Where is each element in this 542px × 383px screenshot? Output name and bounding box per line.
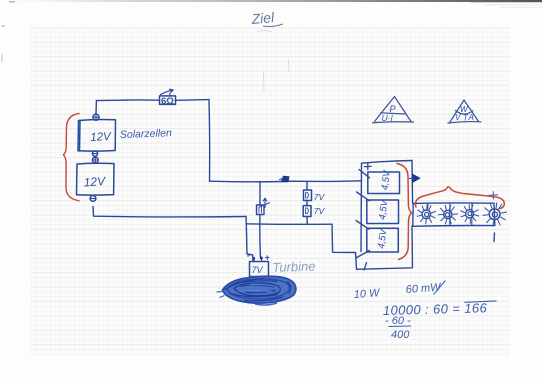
svg-text:- 60 -: - 60 - [385, 315, 411, 327]
svg-text:400: 400 [391, 329, 410, 341]
svg-text:A: A [468, 113, 474, 122]
svg-text:60 mW: 60 mW [405, 281, 442, 296]
svg-text:Turbine: Turbine [272, 258, 316, 274]
svg-text:10 W: 10 W [353, 287, 381, 301]
svg-text:Solarzellen: Solarzellen [120, 127, 172, 141]
svg-text:7V: 7V [252, 265, 264, 275]
svg-text:6Ω: 6Ω [161, 96, 174, 107]
svg-text:12V: 12V [90, 131, 112, 144]
svg-text:7V: 7V [314, 206, 326, 216]
svg-text:12V: 12V [83, 174, 106, 190]
svg-text:Ziel: Ziel [250, 9, 276, 27]
svg-text:V: V [455, 113, 461, 122]
svg-text:7V: 7V [314, 192, 326, 202]
svg-text:U·I: U·I [382, 113, 394, 123]
